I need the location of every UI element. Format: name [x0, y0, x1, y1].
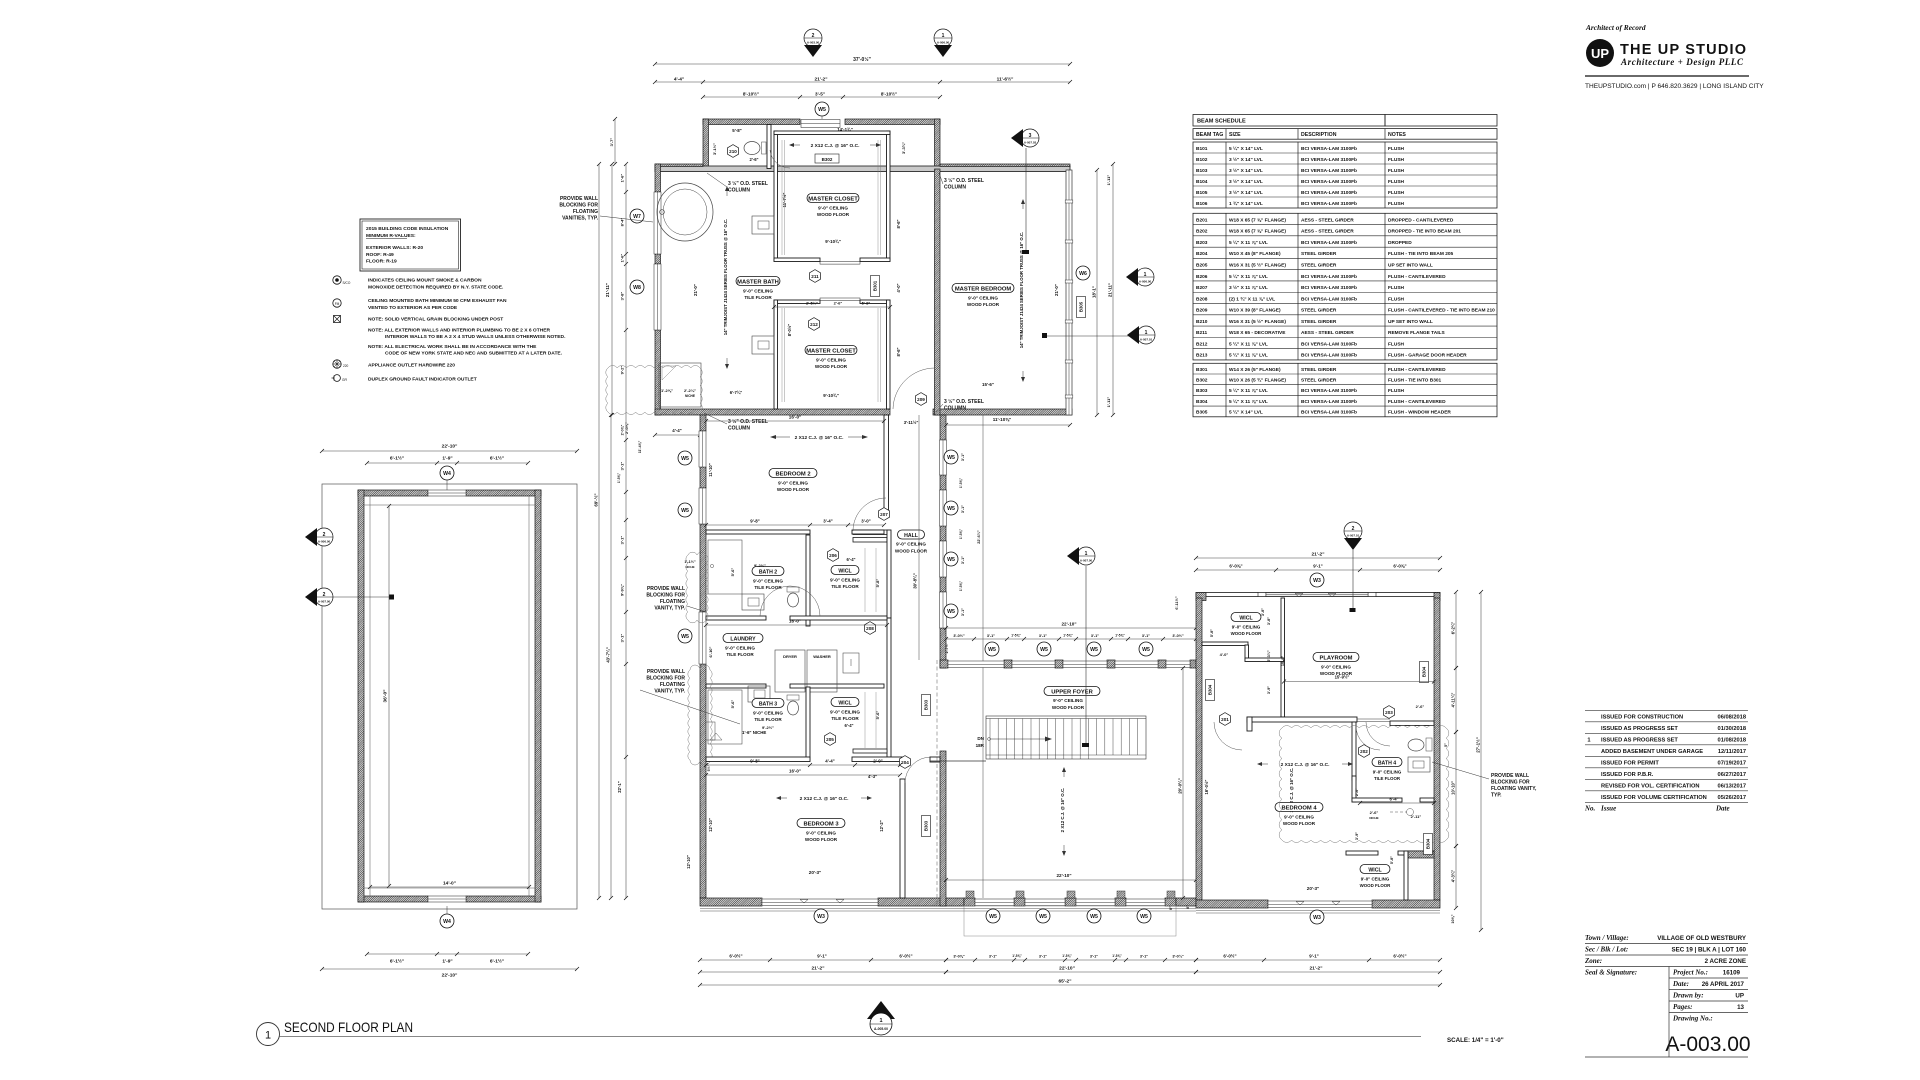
svg-text:A-007.01: A-007.01: [1347, 534, 1360, 538]
svg-text:9'-0" CEILING: 9'-0" CEILING: [896, 542, 926, 547]
svg-text:4'-0": 4'-0": [1220, 652, 1229, 657]
svg-text:9'-0" CEILING: 9'-0" CEILING: [753, 579, 783, 584]
svg-text:1: 1: [1145, 330, 1148, 336]
garage roof: 14'-0 dim: [370, 886, 529, 888]
svg-text:9'-10¾": 9'-10¾": [825, 239, 841, 244]
svg-text:209: 209: [917, 397, 925, 402]
sliding doors 211/212: [820, 262, 860, 265]
suite: top wall girder strip: [655, 166, 1070, 172]
svg-text:W5: W5: [1039, 914, 1047, 920]
bedroom3 walls: [900, 779, 905, 898]
svg-text:1'-6" NICHE: 1'-6" NICHE: [742, 730, 766, 735]
section marker 2/A-007.00 left: [315, 588, 333, 606]
corridor window wall west segments: [940, 415, 946, 440]
svg-text:BCI VERSA-LAM 3100Fb: BCI VERSA-LAM 3100Fb: [1301, 201, 1357, 207]
svg-text:5 ¼" X 11 ⅞" LVL: 5 ¼" X 11 ⅞" LVL: [1229, 239, 1268, 246]
svg-text:1: 1: [879, 1018, 882, 1024]
svg-text:206: 206: [829, 553, 837, 558]
svg-text:9'-0" CEILING: 9'-0" CEILING: [1373, 770, 1402, 775]
section marker top 2: [804, 29, 822, 47]
svg-text:WOOD FLOOR: WOOD FLOOR: [817, 212, 850, 217]
svg-text:CEILING MOUNTED BATH MINIMUM 5: CEILING MOUNTED BATH MINIMUM 50 CFM EXHA…: [368, 298, 507, 304]
svg-text:27'-1½": 27'-1½": [1475, 737, 1480, 753]
svg-text:Drawing No.:: Drawing No.:: [1672, 1015, 1713, 1023]
svg-text:4'-3¼": 4'-3¼": [1450, 870, 1455, 883]
svg-text:W7: W7: [633, 214, 641, 220]
sill band right block south: [1196, 910, 1440, 912]
svg-text:A-006.00: A-006.00: [318, 540, 331, 544]
svg-text:INTERIOR WALLS TO BE A 2 X 4 S: INTERIOR WALLS TO BE A 2 X 4 STUD WALLS …: [385, 334, 566, 340]
note: blocking symbol: [334, 316, 341, 323]
wicl rods: [864, 548, 866, 612]
svg-text:B205: B205: [1196, 263, 1208, 269]
svg-text:WASHER: WASHER: [813, 654, 831, 659]
svg-text:VANITY, TYP.: VANITY, TYP.: [654, 689, 685, 695]
svg-text:ISSUED AS PROGRESS SET: ISSUED AS PROGRESS SET: [1601, 726, 1678, 732]
svg-text:B212: B212: [1196, 341, 1208, 347]
hex tag 210: [728, 145, 739, 158]
svg-text:16109: 16109: [1723, 970, 1741, 977]
svg-text:TILE FLOOR: TILE FLOOR: [1374, 776, 1401, 781]
svg-text:5'-8": 5'-8": [1390, 856, 1394, 864]
svg-text:B101: B101: [1196, 146, 1208, 152]
hex tag 209: [916, 393, 927, 406]
svg-text:W5: W5: [681, 456, 689, 462]
svg-text:W5: W5: [947, 609, 955, 615]
svg-text:GFI: GFI: [342, 378, 347, 382]
svg-text:9'-1": 9'-1": [817, 954, 826, 959]
insulation code note box: [360, 219, 461, 271]
svg-text:22'-6¼": 22'-6¼": [977, 530, 981, 544]
svg-text:9'-10¾": 9'-10¾": [823, 393, 839, 398]
svg-text:37'-0½": 37'-0½": [853, 56, 871, 63]
svg-text:AESS - STEEL GIRDER: AESS - STEEL GIRDER: [1301, 330, 1354, 336]
svg-text:06/13/2017: 06/13/2017: [1718, 784, 1746, 790]
svg-text:6'-11½": 6'-11½": [1175, 596, 1179, 609]
svg-text:12'-2": 12'-2": [879, 820, 884, 831]
svg-text:9'-0" CEILING: 9'-0" CEILING: [830, 578, 860, 583]
svg-text:WOOD FLOOR: WOOD FLOOR: [805, 837, 838, 842]
svg-text:1'-5⅝": 1'-5⅝": [1115, 634, 1125, 638]
svg-text:Date:: Date:: [1672, 980, 1689, 988]
svg-text:12'-10": 12'-10": [686, 855, 691, 869]
svg-text:Date: Date: [1715, 804, 1730, 812]
svg-text:STEEL GIRDER: STEEL GIRDER: [1301, 251, 1337, 257]
svg-text:AESS - STEEL GIRDER: AESS - STEEL GIRDER: [1301, 229, 1354, 235]
svg-text:1'-5⅝": 1'-5⅝": [959, 581, 963, 592]
svg-text:1'-6": 1'-6": [620, 174, 625, 183]
svg-text:STEEL GIRDER: STEEL GIRDER: [1301, 308, 1337, 314]
bath4 fixtures: [1408, 739, 1424, 751]
svg-text:22'-10": 22'-10": [442, 973, 458, 979]
bedroom2 interior: [769, 469, 817, 478]
svg-text:MASTER BEDROOM: MASTER BEDROOM: [955, 286, 1012, 292]
room label wicl4: [1360, 865, 1390, 874]
revision cloud bath4: [1279, 726, 1449, 843]
svg-text:3 ½" X 14" LVL: 3 ½" X 14" LVL: [1229, 178, 1263, 185]
svg-text:B301: B301: [873, 280, 878, 291]
left dim chain 43-7: [610, 415, 612, 898]
svg-text:3 ½" X 14" LVL: 3 ½" X 14" LVL: [1229, 167, 1263, 174]
svg-text:BLOCKING FOR: BLOCKING FOR: [646, 593, 685, 599]
foyer east dim: [1182, 668, 1184, 898]
svg-text:21'-0": 21'-0": [693, 284, 698, 296]
svg-text:NICHE: NICHE: [1369, 816, 1378, 820]
svg-text:BEDROOM 2: BEDROOM 2: [775, 471, 810, 477]
svg-text:W16 X 31 (5 ½" FLANGE): W16 X 31 (5 ½" FLANGE): [1229, 318, 1286, 325]
bath2/wicl row walls: [806, 535, 810, 626]
svg-text:BCI VERSA-LAM 3100Fb: BCI VERSA-LAM 3100Fb: [1301, 353, 1357, 359]
svg-text:22'-10": 22'-10": [1061, 622, 1076, 627]
svg-text:BEAM TAG: BEAM TAG: [1196, 132, 1223, 138]
sill band center south: [946, 908, 1196, 910]
hex 206: [828, 549, 839, 562]
svg-text:VILLAGE OF OLD WESTBURY: VILLAGE OF OLD WESTBURY: [1657, 935, 1747, 942]
svg-text:2 X12 C.J. @ 16" O.C.: 2 X12 C.J. @ 16" O.C.: [811, 143, 860, 149]
svg-text:2'-6": 2'-6": [1416, 704, 1425, 709]
svg-text:SCALE: 1/4" = 1'-0": SCALE: 1/4" = 1'-0": [1447, 1037, 1504, 1044]
central: bottom window W3: [762, 899, 878, 906]
svg-text:3'-9": 3'-9": [1355, 832, 1359, 840]
svg-text:WICL: WICL: [838, 700, 852, 706]
W tag W7: [630, 209, 644, 223]
section marker 1 A-006.00 right: [1136, 268, 1154, 286]
bath4 walls: [1352, 722, 1356, 780]
garage roof: top window W4: [428, 490, 466, 496]
svg-text:30'-8¼": 30'-8¼": [913, 573, 918, 589]
svg-text:6'-0½": 6'-0½": [1393, 954, 1406, 959]
svg-text:3'-0½": 3'-0½": [1172, 634, 1184, 638]
room label bath2: [752, 567, 784, 576]
svg-text:BCI VERSA-LAM 3100Fb: BCI VERSA-LAM 3100Fb: [1301, 399, 1357, 405]
svg-text:THEUPSTUDIO.com | P 646.820.36: THEUPSTUDIO.com | P 646.820.3629 | LONG …: [1585, 83, 1764, 90]
svg-text:2 X12 C.J. @ 16" O.C.: 2 X12 C.J. @ 16" O.C.: [1281, 762, 1330, 768]
svg-text:6'-2¼": 6'-2¼": [1450, 622, 1455, 635]
left dim chain outer: [598, 164, 600, 898]
svg-text:4'-3": 4'-3": [868, 774, 877, 779]
svg-text:W5: W5: [947, 557, 955, 563]
svg-text:2'-5½": 2'-5½": [806, 301, 818, 306]
svg-text:3'-3¾": 3'-3¾": [901, 142, 906, 154]
svg-text:1'-5⅝": 1'-5⅝": [959, 478, 963, 489]
svg-text:9'-8": 9'-8": [750, 759, 759, 764]
svg-text:FLOATING: FLOATING: [660, 682, 685, 688]
note: appliance outlet symbol: [333, 360, 341, 368]
svg-text:6'-7¼": 6'-7¼": [730, 390, 743, 395]
svg-text:FLUSH - WINDOW HEADER: FLUSH - WINDOW HEADER: [1388, 410, 1451, 416]
svg-text:3'-0½": 3'-0½": [953, 634, 965, 638]
svg-text:3'-1": 3'-1": [1090, 955, 1098, 959]
svg-text:21'-2": 21'-2": [814, 76, 827, 82]
svg-text:208: 208: [866, 626, 874, 631]
svg-text:BCI VERSA-LAM 3100Fb: BCI VERSA-LAM 3100Fb: [1301, 388, 1357, 394]
svg-text:STEEL GIRDER: STEEL GIRDER: [1301, 367, 1337, 373]
master bath tub: [657, 183, 713, 241]
garage roof: bottom wall: [358, 896, 428, 902]
svg-text:3'-9": 3'-9": [1267, 686, 1271, 694]
svg-text:W5: W5: [1040, 647, 1048, 653]
corridor south wall with windows: [940, 660, 948, 668]
svg-text:2'-6": 2'-6": [749, 157, 758, 162]
right block: top window W3: [1266, 593, 1368, 596]
svg-text:NICHE: NICHE: [685, 394, 695, 398]
bottom dim row 1 left block: [700, 959, 946, 961]
right block top dims: [1196, 557, 1440, 559]
svg-text:11'-10⅝": 11'-10⅝": [993, 417, 1012, 422]
wicl4 walls: [1346, 851, 1378, 855]
svg-text:2: 2: [1352, 526, 1355, 532]
room label playroom: [1313, 653, 1359, 662]
svg-text:3 ½" O.D. STEEL: 3 ½" O.D. STEEL: [944, 398, 984, 405]
svg-text:3 ½" X 11 ⅞" LVL: 3 ½" X 11 ⅞" LVL: [1229, 284, 1268, 291]
hex 208: [865, 622, 876, 635]
svg-text:B303: B303: [924, 820, 929, 831]
svg-text:4'-0": 4'-0": [896, 283, 901, 292]
W tag W3 bottom left: [814, 909, 828, 923]
svg-text:203: 203: [1385, 710, 1393, 715]
svg-text:B207: B207: [1196, 285, 1208, 291]
svg-text:REVISED FOR VOL. CERTIFICATION: REVISED FOR VOL. CERTIFICATION: [1601, 784, 1699, 790]
right block: left wall: [1196, 598, 1202, 900]
svg-text:BEDROOM 4: BEDROOM 4: [1281, 805, 1317, 811]
svg-text:3'-8": 3'-8": [620, 292, 625, 301]
svg-text:NOTE: SOLID VERTICAL GRAIN BLO: NOTE: SOLID VERTICAL GRAIN BLOCKING UNDE…: [368, 317, 503, 323]
svg-text:DROPPED: DROPPED: [1388, 240, 1412, 246]
svg-text:COLUMN: COLUMN: [944, 406, 966, 412]
central: bottom wall: [700, 898, 762, 906]
svg-text:A-005.00: A-005.00: [874, 1027, 888, 1031]
svg-text:ISSUED FOR P.B.R.: ISSUED FOR P.B.R.: [1601, 772, 1654, 778]
svg-text:PROVIDE WALL: PROVIDE WALL: [1491, 773, 1529, 779]
svg-text:12'-10": 12'-10": [708, 818, 713, 832]
svg-text:WOOD FLOOR: WOOD FLOOR: [1052, 705, 1085, 710]
svg-text:BEDROOM 3: BEDROOM 3: [803, 821, 839, 827]
svg-text:Issue: Issue: [1600, 804, 1616, 812]
svg-text:BCI VERSA-LAM 3100Fb: BCI VERSA-LAM 3100Fb: [1301, 168, 1357, 174]
svg-text:9'-0" CEILING: 9'-0" CEILING: [806, 831, 836, 836]
svg-text:W5: W5: [1090, 914, 1098, 920]
svg-text:W18 X 65 (7 ⅝" FLANGE): W18 X 65 (7 ⅝" FLANGE): [1229, 217, 1286, 223]
svg-text:21'-11": 21'-11": [1107, 283, 1112, 297]
svg-text:5 ¼" X 11 ⅞" LVL: 5 ¼" X 11 ⅞" LVL: [1229, 352, 1268, 359]
svg-text:14'-1¾": 14'-1¾": [837, 127, 853, 132]
right block east dims: [1455, 592, 1457, 668]
svg-text:NICHE: NICHE: [685, 565, 694, 569]
svg-text:AESS - STEEL GIRDER: AESS - STEEL GIRDER: [1301, 217, 1354, 223]
wing: right wall: [935, 119, 941, 169]
svg-text:1'-5⅝": 1'-5⅝": [959, 529, 963, 540]
svg-text:3 ½" O.D. STEEL: 3 ½" O.D. STEEL: [728, 180, 768, 187]
svg-text:TILE FLOOR: TILE FLOOR: [831, 584, 859, 589]
svg-text:210: 210: [729, 149, 737, 154]
svg-text:FLUSH - TIE INTO B301: FLUSH - TIE INTO B301: [1388, 378, 1442, 384]
svg-text:3'-0¼": 3'-0¼": [1172, 955, 1184, 959]
svg-text:1'-5⅝": 1'-5⅝": [1062, 954, 1072, 958]
svg-text:SEC 19 | BLK A | LOT 160: SEC 19 | BLK A | LOT 160: [1671, 947, 1746, 954]
svg-text:11'-4⅝": 11'-4⅝": [638, 440, 642, 453]
room label laundry: [723, 634, 763, 643]
svg-text:W4: W4: [443, 919, 451, 925]
svg-text:1'-11": 1'-11": [1106, 175, 1111, 186]
W tag W5 left a: [678, 451, 692, 465]
svg-text:2015 BUILDING CODE INSULATION: 2015 BUILDING CODE INSULATION: [366, 226, 449, 232]
svg-text:BLOCKING FOR: BLOCKING FOR: [1491, 780, 1530, 786]
right block bottom dims: [1196, 959, 1440, 961]
svg-text:201: 201: [1221, 717, 1229, 722]
svg-text:21'-2": 21'-2": [1311, 552, 1324, 558]
svg-text:W5: W5: [1140, 914, 1148, 920]
bath3/wicl row walls: [806, 687, 810, 760]
svg-text:1 ¾" X 14" LVL: 1 ¾" X 14" LVL: [1229, 200, 1263, 207]
svg-text:DUPLEX GROUND FAULT INDICATOR: DUPLEX GROUND FAULT INDICATOR OUTLET: [368, 377, 477, 383]
svg-text:205: 205: [826, 737, 834, 742]
svg-text:3'-0⅝": 3'-0⅝": [953, 955, 965, 959]
svg-text:BCI VERSA-LAM 3100Fb: BCI VERSA-LAM 3100Fb: [1301, 179, 1357, 185]
room label master closet 1: [807, 194, 859, 203]
svg-text:1'-9": 1'-9": [442, 456, 452, 462]
svg-text:BLOCKING FOR: BLOCKING FOR: [646, 676, 685, 682]
svg-text:W10 X 39 (8" FLANGE): W10 X 39 (8" FLANGE): [1229, 308, 1281, 314]
svg-text:5'-8": 5'-8": [732, 128, 741, 133]
svg-text:14" TRIMJOIST J1424 SERIES FLO: 14" TRIMJOIST J1424 SERIES FLOOR TRUSS @…: [723, 219, 728, 335]
svg-text:3: 3: [1029, 133, 1032, 139]
master closet 1 walls: [774, 131, 778, 261]
svg-text:6'-1½": 6'-1½": [490, 958, 504, 965]
svg-text:22'-10": 22'-10": [442, 444, 458, 450]
svg-text:W16 X 31 (5 ½" FLANGE): W16 X 31 (5 ½" FLANGE): [1229, 262, 1286, 269]
room label bath3: [752, 699, 784, 708]
beam tag B302: [815, 154, 839, 163]
svg-text:PLAYROOM: PLAYROOM: [1320, 655, 1353, 661]
svg-text:6'-1½": 6'-1½": [490, 455, 504, 462]
closet rods: [781, 140, 783, 255]
note: exhaust fan symbol: [333, 299, 341, 307]
hex 207: [879, 508, 890, 521]
svg-text:5": 5": [1444, 743, 1448, 747]
svg-text:UP SET INTO WALL: UP SET INTO WALL: [1388, 263, 1433, 269]
svg-text:FLOOR: R-19: FLOOR: R-19: [366, 259, 397, 265]
door 210 arc: [770, 150, 790, 168]
central: left wall window W5 a: [699, 431, 706, 467]
section marker top 1: [934, 29, 952, 47]
svg-text:(2) 1 ¾" X 11 ⅞" LVL: (2) 1 ¾" X 11 ⅞" LVL: [1229, 295, 1275, 302]
svg-text:FLUSH: FLUSH: [1388, 285, 1405, 291]
svg-text:69'-½": 69'-½": [593, 493, 598, 506]
svg-text:FLUSH: FLUSH: [1388, 190, 1405, 196]
svg-text:FLOATING: FLOATING: [660, 599, 685, 605]
section marker 1 A-007.00 over foyer: [1077, 547, 1095, 565]
svg-text:W3: W3: [1313, 578, 1321, 584]
svg-text:3'-1": 3'-1": [1039, 955, 1047, 959]
svg-text:2'-0⅝": 2'-0⅝": [624, 422, 629, 434]
svg-text:11'-7½": 11'-7½": [782, 193, 787, 208]
svg-text:B202: B202: [1196, 229, 1208, 235]
svg-text:06/08/2018: 06/08/2018: [1718, 715, 1746, 721]
svg-text:2'-3¼": 2'-3¼": [1267, 650, 1271, 662]
corridor windows in west wall: [940, 440, 947, 475]
svg-text:B105: B105: [1196, 190, 1208, 196]
svg-text:REMOVE FLANGE TAILS: REMOVE FLANGE TAILS: [1388, 330, 1445, 336]
svg-text:207: 207: [880, 512, 888, 517]
svg-text:BCI VERSA-LAM 3100Fb: BCI VERSA-LAM 3100Fb: [1301, 296, 1357, 302]
svg-text:15'-6": 15'-6": [982, 382, 994, 387]
svg-text:6'-0⅝": 6'-0⅝": [1393, 564, 1406, 569]
sill band bedroom3 south: [700, 908, 946, 910]
svg-text:9'-9⅝": 9'-9⅝": [620, 584, 625, 596]
svg-text:BCI VERSA-LAM 3100Fb: BCI VERSA-LAM 3100Fb: [1301, 157, 1357, 163]
W tags corridor south: [985, 642, 999, 656]
svg-text:9'-0" CEILING: 9'-0" CEILING: [743, 289, 773, 294]
svg-text:FLUSH: FLUSH: [1388, 179, 1405, 185]
svg-text:11'-10": 11'-10": [708, 463, 713, 476]
svg-text:6'-4": 6'-4": [844, 723, 853, 728]
svg-text:16'-0½": 16'-0½": [1204, 780, 1209, 795]
svg-text:UP: UP: [1591, 46, 1609, 61]
svg-text:15'-9½": 15'-9½": [1335, 675, 1350, 680]
svg-text:1'-5⅝": 1'-5⅝": [1011, 634, 1021, 638]
svg-text:8'-10½": 8'-10½": [881, 90, 897, 96]
svg-text:1: 1: [1144, 272, 1147, 278]
svg-text:8'-6": 8'-6": [896, 219, 901, 228]
svg-text:MASTER CLOSET: MASTER CLOSET: [808, 196, 858, 202]
svg-text:14'-0": 14'-0": [443, 881, 456, 887]
svg-text:FLUSH - CANTILEVERED: FLUSH - CANTILEVERED: [1388, 274, 1446, 280]
svg-text:COLUMN: COLUMN: [728, 426, 750, 432]
svg-text:B210: B210: [1196, 319, 1208, 325]
svg-text:1'-9": 1'-9": [442, 959, 452, 965]
svg-text:B304: B304: [1426, 838, 1431, 849]
svg-text:B104: B104: [1196, 179, 1208, 185]
svg-text:A-003.00: A-003.00: [807, 41, 820, 45]
svg-text:Zone:: Zone:: [1584, 957, 1602, 965]
garage roof: inner face lines: [369, 496, 371, 896]
svg-text:21'-0": 21'-0": [1054, 284, 1059, 296]
beam tags right block: [1206, 680, 1215, 701]
svg-text:16'-0": 16'-0": [789, 415, 801, 420]
svg-text:2: 2: [323, 532, 326, 538]
svg-text:FLUSH - TIE INTO BEAM 205: FLUSH - TIE INTO BEAM 205: [1388, 251, 1454, 257]
suite top dims: [655, 63, 1070, 65]
svg-text:VANITY, TYP.: VANITY, TYP.: [654, 606, 685, 612]
svg-text:WOOD FLOOR: WOOD FLOOR: [1283, 821, 1316, 826]
svg-text:UP: UP: [1735, 993, 1744, 1000]
svg-text:Sec / Blk / Lot:: Sec / Blk / Lot:: [1585, 946, 1628, 954]
svg-text:W5: W5: [1090, 647, 1098, 653]
svg-text:W3: W3: [817, 914, 825, 920]
svg-text:10'-10": 10'-10": [1450, 781, 1455, 795]
svg-text:STEEL GIRDER: STEEL GIRDER: [1301, 378, 1337, 384]
svg-text:W5: W5: [681, 508, 689, 514]
svg-text:FLOATING: FLOATING: [573, 209, 598, 215]
svg-text:BCI VERSA-LAM 3100Fb: BCI VERSA-LAM 3100Fb: [1301, 146, 1357, 152]
svg-text:5'-6": 5'-6": [875, 711, 880, 720]
svg-text:5'-8": 5'-8": [862, 301, 871, 306]
svg-text:W5: W5: [818, 107, 826, 113]
svg-text:3'-8": 3'-8": [1261, 608, 1265, 616]
svg-text:APPLIANCE OUTLET HARDWIRE 220: APPLIANCE OUTLET HARDWIRE 220: [368, 363, 455, 369]
svg-text:3'-0": 3'-0": [861, 519, 870, 524]
svg-text:HALL: HALL: [904, 533, 919, 539]
svg-text:Project No.:: Project No.:: [1673, 969, 1708, 977]
svg-text:WOOD FLOOR: WOOD FLOOR: [1231, 631, 1263, 636]
svg-text:STEEL GIRDER: STEEL GIRDER: [1301, 319, 1337, 325]
hall west wall: [887, 530, 891, 618]
suite: left wall window W8: [654, 264, 661, 330]
svg-text:4'-4": 4'-4": [674, 76, 684, 82]
svg-text:WICL: WICL: [1368, 867, 1382, 873]
svg-text:9'-0" CEILING: 9'-0" CEILING: [830, 710, 860, 715]
svg-text:8": 8": [1186, 905, 1190, 909]
